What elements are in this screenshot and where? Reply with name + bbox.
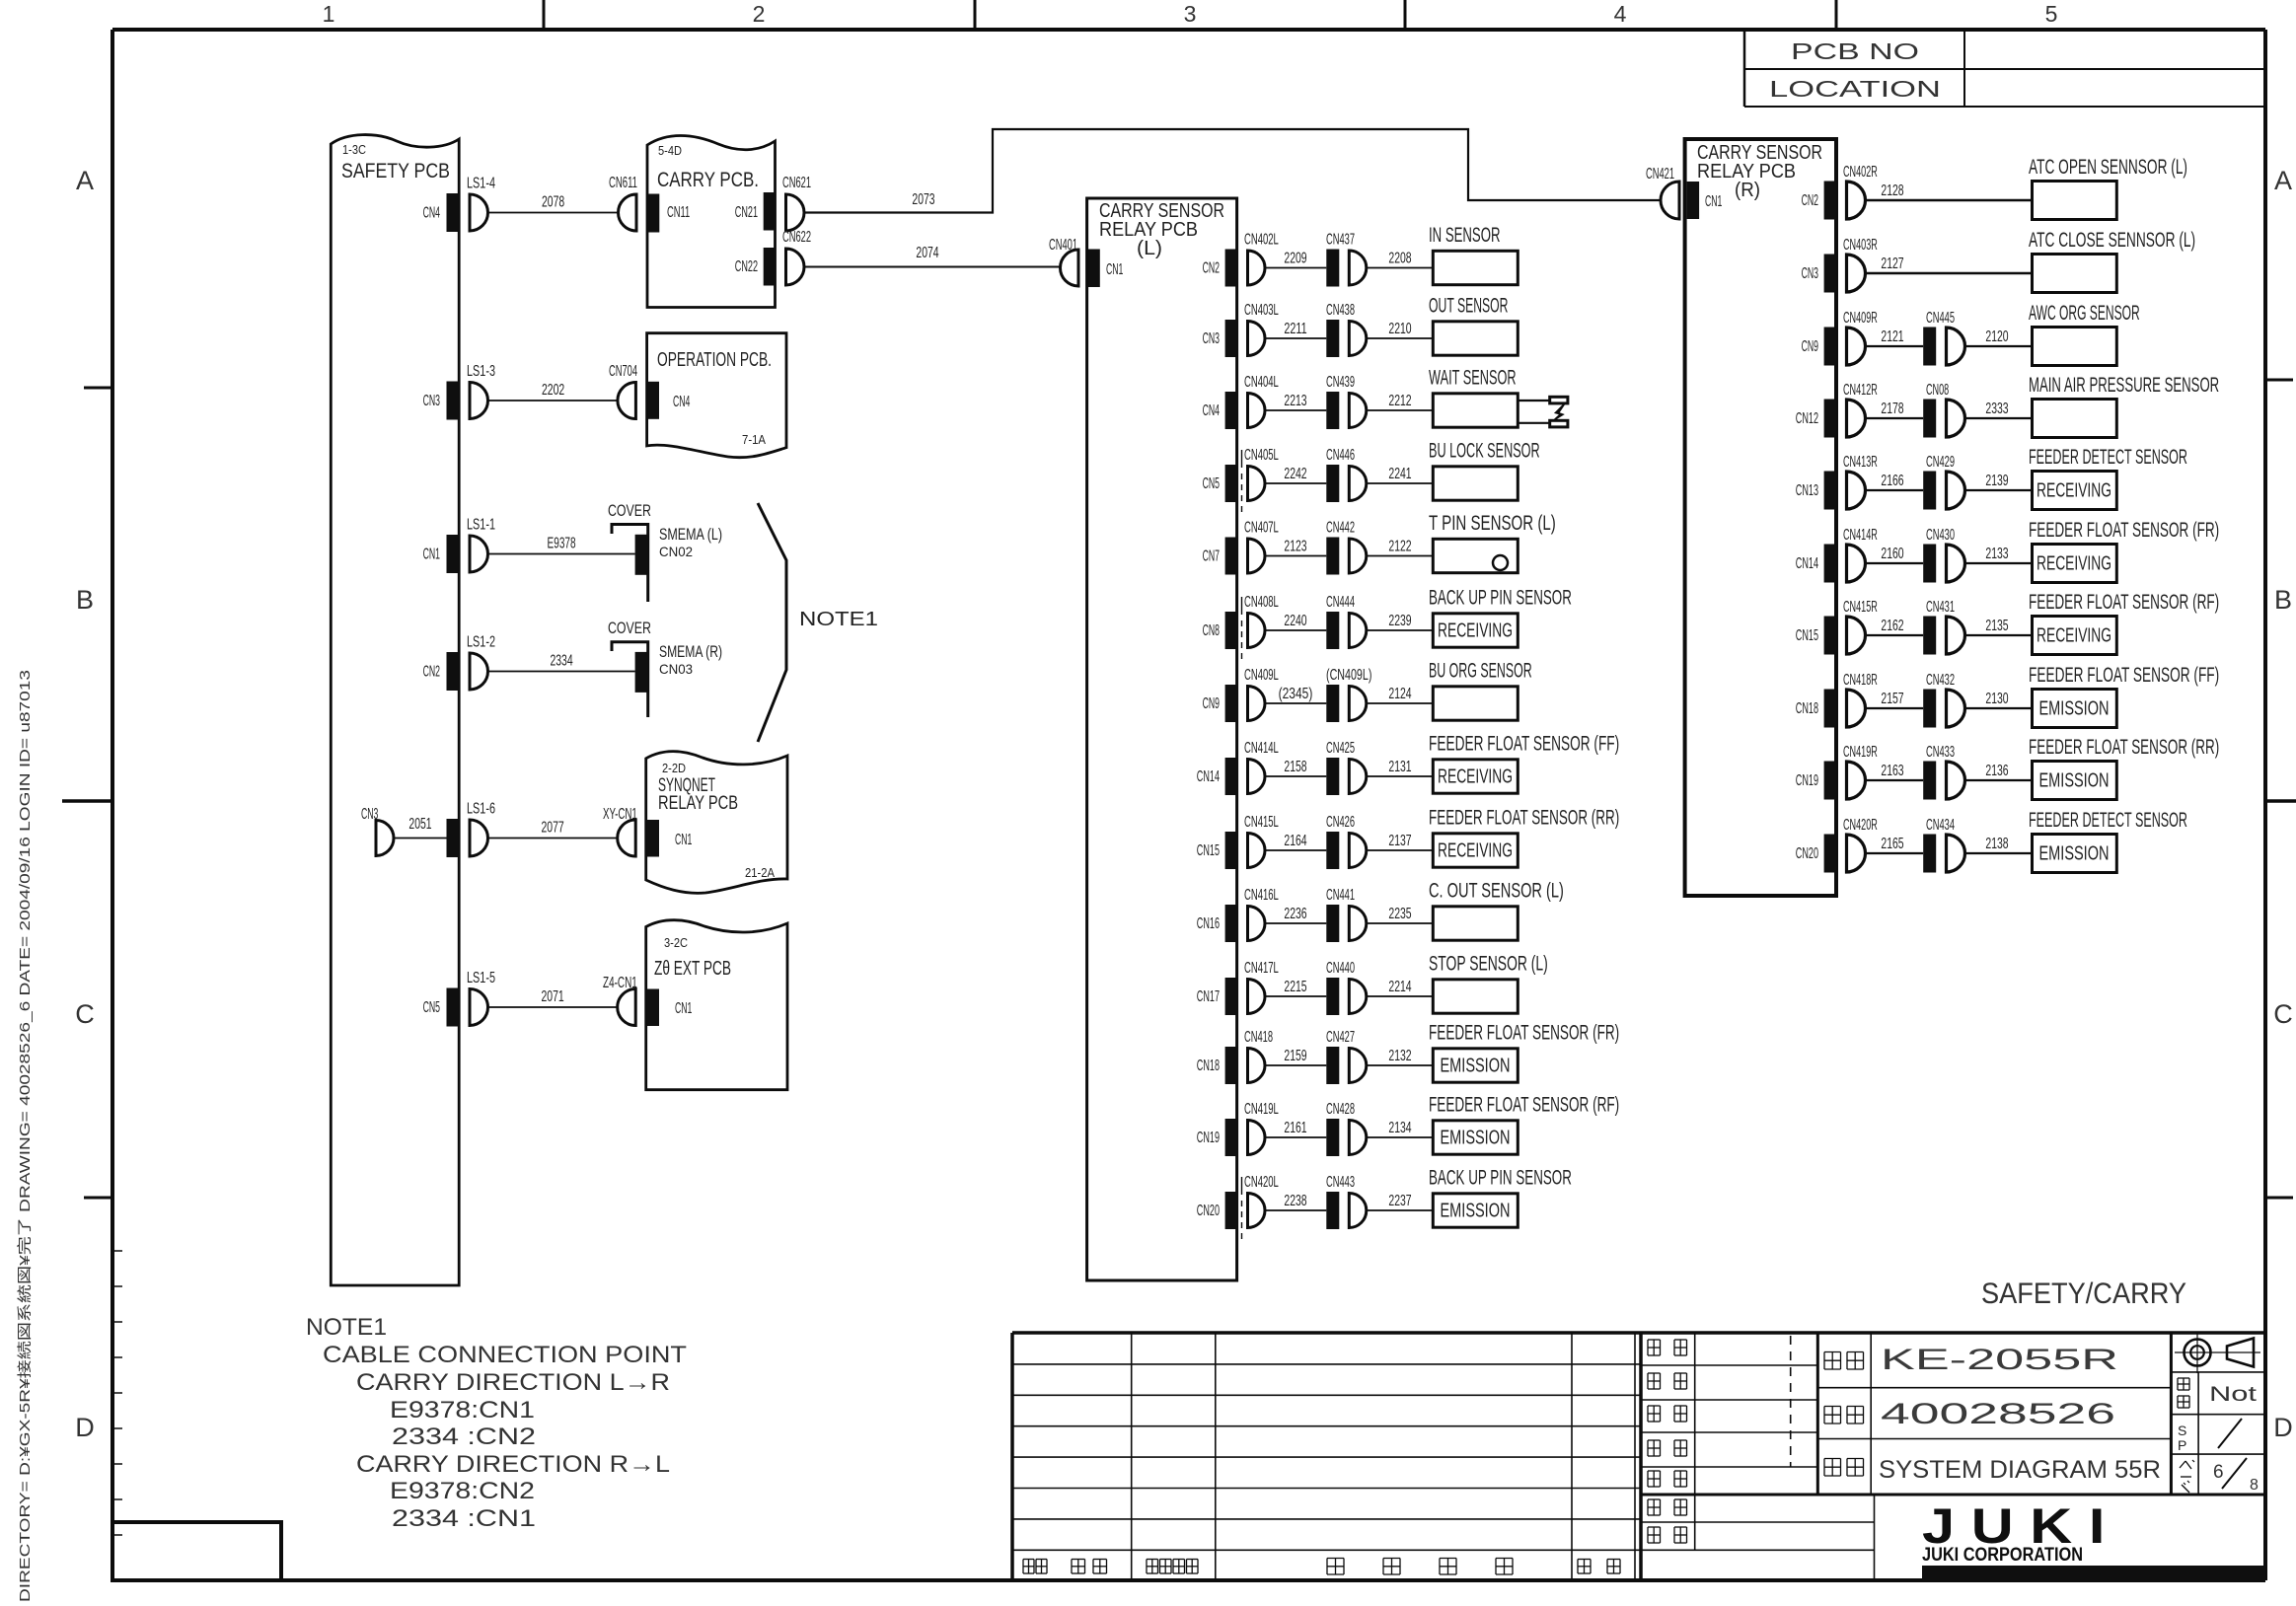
svg-text:CN19: CN19 bbox=[1796, 772, 1818, 789]
connector XY-CN1 plug bbox=[603, 806, 637, 856]
connector CN11 pin header on CARRY PCB bbox=[647, 194, 690, 233]
svg-text:2133: 2133 bbox=[1985, 546, 2008, 562]
svg-text:2165: 2165 bbox=[1881, 836, 1903, 852]
svg-text:CN403R: CN403R bbox=[1843, 237, 1878, 254]
svg-text:FEEDER FLOAT SENSOR (RF): FEEDER FLOAT SENSOR (RF) bbox=[1429, 1094, 1619, 1117]
svg-text:AWC ORG SENSOR: AWC ORG SENSOR bbox=[2029, 302, 2140, 325]
connector CN443 inline pin header bbox=[1326, 1174, 1355, 1229]
svg-text:CN20: CN20 bbox=[1796, 845, 1818, 862]
svg-text:2157: 2157 bbox=[1881, 691, 1903, 707]
svg-text:3: 3 bbox=[1184, 1, 1197, 27]
svg-text:CN16: CN16 bbox=[1197, 915, 1220, 932]
svg-text:EMISSION: EMISSION bbox=[2039, 698, 2110, 720]
connector CN421 plug bbox=[1646, 166, 1679, 219]
wire 2214 bbox=[1367, 979, 1434, 996]
svg-text:EMISSION: EMISSION bbox=[1441, 1128, 1511, 1149]
connector CN14 pin header on relay PCB (R) bbox=[1796, 545, 1836, 583]
connector CN432 inline pin header bbox=[1923, 672, 1955, 728]
OPERATION PCB board outline bbox=[647, 333, 786, 458]
sensor box BACK UP PIN SENSOR bbox=[1429, 587, 1572, 648]
sensor box C. OUT SENSOR (L) bbox=[1429, 880, 1564, 941]
svg-text:CN443: CN443 bbox=[1326, 1174, 1355, 1191]
connector CN437 mating plug bbox=[1349, 251, 1367, 285]
svg-text:CN03: CN03 bbox=[659, 661, 693, 677]
svg-text:CN3: CN3 bbox=[1802, 265, 1818, 282]
svg-text:CN432: CN432 bbox=[1926, 672, 1955, 689]
svg-text:CN9: CN9 bbox=[1802, 338, 1818, 355]
sensor box BU ORG SENSOR bbox=[1429, 660, 1532, 721]
wire 2178 bbox=[1866, 401, 1924, 418]
connector CN19 pin header on relay PCB (R) bbox=[1796, 762, 1836, 800]
svg-text:2136: 2136 bbox=[1985, 763, 2008, 779]
sensor box AWC ORG SENSOR bbox=[2029, 302, 2140, 366]
sensor box BU LOCK SENSOR bbox=[1429, 440, 1540, 501]
svg-text:(CN409L): (CN409L) bbox=[1326, 667, 1371, 684]
svg-text:ATC CLOSE SENNSOR (L): ATC CLOSE SENNSOR (L) bbox=[2029, 229, 2195, 252]
svg-text:CN21: CN21 bbox=[735, 204, 758, 221]
svg-text:2238: 2238 bbox=[1284, 1193, 1306, 1209]
svg-text:2158: 2158 bbox=[1284, 759, 1306, 775]
sensor box MAIN AIR PRESSURE SENSOR bbox=[2029, 374, 2219, 438]
connector CN440 mating plug bbox=[1349, 980, 1367, 1014]
svg-text:CN419L: CN419L bbox=[1244, 1101, 1279, 1118]
svg-text:2211: 2211 bbox=[1284, 321, 1306, 337]
svg-text:CABLE CONNECTION POINT: CABLE CONNECTION POINT bbox=[323, 1342, 687, 1368]
Z0 EXT PCB board outline bbox=[646, 920, 787, 1090]
svg-text:2120: 2120 bbox=[1985, 328, 2008, 345]
svg-text:CARRY DIRECTION R→L: CARRY DIRECTION R→L bbox=[356, 1451, 670, 1478]
svg-text:40028526: 40028526 bbox=[1881, 1398, 2115, 1430]
connector CN4 pin header on SAFETY PCB bbox=[423, 193, 460, 232]
connector CN704 plug bbox=[609, 363, 637, 419]
svg-text:C: C bbox=[2273, 999, 2293, 1029]
svg-text:RECEIVING: RECEIVING bbox=[1438, 620, 1513, 642]
connector LS1-6 plug bbox=[467, 801, 495, 857]
cover SMEMA (R) bbox=[608, 619, 722, 717]
connector CN415R plug bbox=[1843, 599, 1878, 654]
svg-text:CN402R: CN402R bbox=[1843, 164, 1878, 181]
svg-text:CN446: CN446 bbox=[1326, 447, 1355, 464]
wire 2162 bbox=[1866, 618, 1924, 635]
svg-text:2334: 2334 bbox=[550, 653, 572, 670]
svg-text:CN444: CN444 bbox=[1326, 594, 1355, 611]
svg-text:(L): (L) bbox=[1137, 238, 1162, 259]
svg-text:CN419R: CN419R bbox=[1843, 744, 1878, 761]
svg-text:CN5: CN5 bbox=[1203, 475, 1220, 492]
svg-text:OPERATION PCB.: OPERATION PCB. bbox=[657, 349, 772, 371]
svg-text:FEEDER FLOAT SENSOR (FR): FEEDER FLOAT SENSOR (FR) bbox=[2029, 519, 2219, 542]
svg-text:CN430: CN430 bbox=[1926, 527, 1955, 544]
svg-text:P: P bbox=[2178, 1437, 2186, 1453]
svg-text:CN408L: CN408L bbox=[1244, 594, 1279, 611]
wire 2165 bbox=[1866, 836, 1924, 853]
svg-text:2235: 2235 bbox=[1388, 906, 1411, 922]
connector Z4-CN1 plug bbox=[603, 975, 637, 1026]
connector CN402R plug bbox=[1843, 164, 1878, 219]
connector CN431 mating plug bbox=[1947, 617, 1965, 654]
connector CN442 inline pin header bbox=[1326, 520, 1355, 575]
wire 2139 bbox=[1965, 473, 2033, 490]
connector CN446 mating plug bbox=[1349, 467, 1367, 501]
connector CN7 pin header on relay PCB (L) bbox=[1203, 538, 1237, 575]
svg-text:2135: 2135 bbox=[1985, 618, 2008, 634]
connector CN402L plug bbox=[1244, 232, 1279, 286]
svg-text:BACK UP PIN SENSOR: BACK UP PIN SENSOR bbox=[1429, 587, 1572, 610]
svg-text:CARRY DIRECTION L→R: CARRY DIRECTION L→R bbox=[356, 1369, 670, 1396]
NOTE1 cable connection notes bbox=[306, 1314, 687, 1532]
connector CN426 mating plug bbox=[1349, 834, 1367, 868]
sensor box FEEDER FLOAT SENSOR (RR) bbox=[2029, 736, 2219, 800]
svg-text:BU ORG SENSOR: BU ORG SENSOR bbox=[1429, 660, 1532, 683]
connector CN9 pin header on relay PCB (L) bbox=[1203, 685, 1237, 722]
sensor box FEEDER FLOAT SENSOR (FF) bbox=[1429, 733, 1619, 794]
wire 2237 bbox=[1367, 1193, 1434, 1210]
svg-text:CN704: CN704 bbox=[609, 363, 637, 380]
sensor box FEEDER FLOAT SENSOR (FR) bbox=[1429, 1022, 1619, 1083]
wire 2212 bbox=[1367, 393, 1434, 410]
connector CN418 plug bbox=[1244, 1029, 1273, 1083]
connector CN409L plug bbox=[1244, 667, 1279, 721]
svg-text:2127: 2127 bbox=[1881, 255, 1903, 272]
svg-text:2212: 2212 bbox=[1388, 393, 1411, 409]
spare box bottom left bbox=[112, 1522, 281, 1580]
connector CN14 pin header on relay PCB (L) bbox=[1197, 758, 1237, 795]
connector CN3 pin header on relay PCB (L) bbox=[1203, 320, 1237, 357]
svg-text:2202: 2202 bbox=[542, 382, 564, 399]
wire 2236 bbox=[1265, 906, 1326, 923]
svg-text:2051: 2051 bbox=[408, 816, 431, 833]
svg-text:SYSTEM DIAGRAM 55R: SYSTEM DIAGRAM 55R bbox=[1879, 1456, 2161, 1484]
svg-text:CN3: CN3 bbox=[423, 393, 440, 409]
svg-text:2131: 2131 bbox=[1388, 759, 1411, 775]
wire 2122 bbox=[1367, 539, 1434, 556]
connector CN08 mating plug bbox=[1947, 400, 1965, 437]
svg-text:CN403L: CN403L bbox=[1244, 302, 1279, 319]
right border row letters A-D bbox=[2273, 166, 2293, 1442]
svg-text:CN405L: CN405L bbox=[1244, 447, 1279, 464]
connector CN1 pin header on relay PCB (R) bbox=[1687, 182, 1723, 219]
wire 2121 bbox=[1866, 328, 1924, 346]
svg-text:CN434: CN434 bbox=[1926, 817, 1955, 834]
wire 2334 bbox=[488, 653, 635, 672]
svg-text:1: 1 bbox=[323, 1, 335, 27]
svg-text:CN18: CN18 bbox=[1796, 700, 1818, 717]
svg-text:LS1-3: LS1-3 bbox=[467, 363, 495, 380]
left border ticks bbox=[62, 388, 122, 1535]
connector CN428 inline pin header bbox=[1326, 1101, 1355, 1156]
svg-text:2074: 2074 bbox=[916, 245, 938, 261]
svg-text:LS1-4: LS1-4 bbox=[467, 176, 495, 192]
connector CN413R plug bbox=[1843, 454, 1878, 509]
connector CN8 pin header on relay PCB (L) bbox=[1203, 612, 1237, 649]
svg-text:JUKI CORPORATION: JUKI CORPORATION bbox=[1922, 1544, 2083, 1566]
revision table header texts (kanji) bbox=[1023, 1559, 1620, 1575]
connector CN434 mating plug bbox=[1947, 835, 1965, 872]
sensor box FEEDER FLOAT SENSOR (RR) bbox=[1429, 807, 1619, 868]
svg-text:CN415R: CN415R bbox=[1843, 599, 1878, 616]
connector CN5 pin header on SAFETY PCB bbox=[423, 988, 460, 1027]
svg-text:2077: 2077 bbox=[542, 820, 564, 837]
wire 2166 bbox=[1866, 473, 1924, 490]
svg-text:B: B bbox=[2274, 585, 2292, 615]
svg-text:CN425: CN425 bbox=[1326, 740, 1355, 757]
connector CN416L plug bbox=[1244, 887, 1279, 941]
connector CN405L plug bbox=[1244, 447, 1279, 501]
connector CN418R plug bbox=[1843, 672, 1878, 727]
svg-text:CN13: CN13 bbox=[1796, 482, 1818, 499]
connector (CN409L) inline pin header bbox=[1326, 667, 1371, 722]
svg-text:CN5: CN5 bbox=[423, 999, 440, 1016]
sensor box T PIN SENSOR (L) bbox=[1429, 512, 1556, 573]
svg-text:CN15: CN15 bbox=[1796, 627, 1818, 644]
svg-text:FEEDER FLOAT SENSOR (RF): FEEDER FLOAT SENSOR (RF) bbox=[2029, 591, 2219, 614]
svg-text:CN9: CN9 bbox=[1203, 695, 1220, 712]
svg-text:1-3C: 1-3C bbox=[342, 142, 366, 157]
svg-text:2236: 2236 bbox=[1284, 906, 1306, 922]
connector CN442 mating plug bbox=[1349, 539, 1367, 573]
svg-text:2166: 2166 bbox=[1881, 473, 1903, 489]
sensor box FEEDER FLOAT SENSOR (FF) bbox=[2029, 664, 2219, 728]
connector CN429 mating plug bbox=[1947, 472, 1965, 509]
svg-text:CN420L: CN420L bbox=[1244, 1174, 1279, 1191]
svg-text:2214: 2214 bbox=[1388, 979, 1411, 995]
connector CN18 pin header on relay PCB (R) bbox=[1796, 690, 1836, 728]
connector CN611 plug bbox=[609, 175, 637, 231]
svg-text:T PIN SENSOR (L): T PIN SENSOR (L) bbox=[1429, 512, 1556, 535]
svg-text:2213: 2213 bbox=[1284, 393, 1306, 409]
svg-text:CN14: CN14 bbox=[1796, 555, 1818, 572]
svg-text:(R): (R) bbox=[1735, 180, 1760, 201]
svg-text:MAIN AIR PRESSURE SENSOR: MAIN AIR PRESSURE SENSOR bbox=[2029, 374, 2219, 397]
svg-text:2073: 2073 bbox=[912, 191, 934, 208]
connector CN4 pin header on OPERATION PCB bbox=[647, 382, 690, 419]
type table labels and values bbox=[1824, 1344, 2161, 1484]
svg-text:CN4: CN4 bbox=[423, 205, 441, 222]
svg-text:CN8: CN8 bbox=[1203, 622, 1220, 639]
connector CN621 plug bbox=[782, 175, 811, 231]
approval table row labels (kanji) bbox=[1648, 1340, 1687, 1543]
svg-text:LS1-1: LS1-1 bbox=[467, 517, 495, 534]
svg-text:CN414L: CN414L bbox=[1244, 740, 1279, 757]
wire 2131 bbox=[1367, 759, 1434, 776]
svg-text:CN611: CN611 bbox=[609, 175, 637, 191]
connector CN13 pin header on relay PCB (R) bbox=[1796, 472, 1836, 510]
wire (2345) bbox=[1265, 686, 1326, 703]
wire 2235 bbox=[1367, 906, 1434, 923]
connector CN12 pin header on relay PCB (R) bbox=[1796, 400, 1836, 438]
svg-text:CN418R: CN418R bbox=[1843, 672, 1878, 689]
connector CN415L plug bbox=[1244, 814, 1279, 868]
svg-text:CN412R: CN412R bbox=[1843, 382, 1878, 399]
connector CN414R plug bbox=[1843, 527, 1878, 582]
boundary dash mark near CN420L bbox=[1241, 1177, 1243, 1240]
title block tables bbox=[1012, 1333, 2265, 1580]
svg-text:2123: 2123 bbox=[1284, 539, 1306, 555]
connector CN432 mating plug bbox=[1947, 690, 1965, 727]
svg-text:CN421: CN421 bbox=[1646, 166, 1674, 182]
connector CN412R plug bbox=[1843, 382, 1878, 437]
svg-text:S: S bbox=[2178, 1423, 2186, 1438]
connector CN22 pin header on CARRY PCB bbox=[735, 248, 776, 286]
svg-text:2134: 2134 bbox=[1388, 1120, 1411, 1136]
connector CN15 pin header on relay PCB (R) bbox=[1796, 617, 1836, 655]
svg-text:PCB NO: PCB NO bbox=[1791, 38, 1919, 64]
svg-text:STOP SENSOR (L): STOP SENSOR (L) bbox=[1429, 953, 1548, 976]
connector LS1-3 plug bbox=[467, 363, 495, 419]
svg-text:CN414R: CN414R bbox=[1843, 527, 1878, 544]
svg-text:CN438: CN438 bbox=[1326, 302, 1355, 319]
wire 2077 bbox=[488, 820, 618, 839]
svg-text:2237: 2237 bbox=[1388, 1193, 1411, 1209]
svg-text:2333: 2333 bbox=[1985, 401, 2008, 417]
wire 2161 bbox=[1265, 1120, 1326, 1137]
sensor box FEEDER FLOAT SENSOR (RF) bbox=[1429, 1094, 1619, 1155]
svg-text:C. OUT SENSOR (L): C. OUT SENSOR (L) bbox=[1429, 880, 1564, 903]
connector CN445 mating plug bbox=[1947, 328, 1965, 365]
wire 2071 bbox=[488, 988, 618, 1007]
svg-text:IN SENSOR: IN SENSOR bbox=[1429, 224, 1501, 247]
svg-text:E9378:CN1: E9378:CN1 bbox=[390, 1397, 535, 1423]
svg-text:B: B bbox=[76, 585, 94, 615]
svg-text:RELAY PCB: RELAY PCB bbox=[658, 793, 738, 814]
sensor box IN SENSOR bbox=[1429, 224, 1518, 285]
wire 2240 bbox=[1265, 613, 1326, 630]
wire 2127 bbox=[1866, 255, 2033, 273]
wire 2128 bbox=[1866, 182, 2033, 200]
svg-text:BU LOCK SENSOR: BU LOCK SENSOR bbox=[1429, 440, 1540, 463]
sensor box WAIT SENSOR bbox=[1429, 367, 1518, 428]
connector CN2 pin header on SAFETY PCB bbox=[423, 652, 460, 691]
connector CN434 inline pin header bbox=[1923, 817, 1955, 873]
svg-text:SAFETY/CARRY: SAFETY/CARRY bbox=[1981, 1277, 2186, 1310]
svg-text:CN20: CN20 bbox=[1197, 1203, 1220, 1219]
top border column ticks bbox=[544, 0, 1836, 30]
sensor box FEEDER DETECT SENSOR bbox=[2029, 809, 2187, 873]
svg-text:EMISSION: EMISSION bbox=[2039, 770, 2110, 792]
svg-text:CN415L: CN415L bbox=[1244, 814, 1279, 831]
svg-text:2139: 2139 bbox=[1985, 473, 2008, 489]
wire 2136 bbox=[1965, 763, 2033, 780]
svg-text:SMEMA (L): SMEMA (L) bbox=[659, 525, 722, 544]
svg-text:CN409L: CN409L bbox=[1244, 667, 1279, 684]
svg-text:CN1: CN1 bbox=[1705, 193, 1722, 210]
connector CN430 mating plug bbox=[1947, 545, 1965, 582]
connector CN441 inline pin header bbox=[1326, 887, 1355, 942]
svg-text:EMISSION: EMISSION bbox=[1441, 1201, 1511, 1222]
svg-text:LS1-6: LS1-6 bbox=[467, 801, 495, 818]
svg-text:2137: 2137 bbox=[1388, 833, 1411, 849]
svg-text:WAIT SENSOR: WAIT SENSOR bbox=[1429, 367, 1517, 390]
svg-text:CN11: CN11 bbox=[667, 204, 690, 221]
connector CN401 plug bbox=[1049, 237, 1078, 286]
svg-text:RECEIVING: RECEIVING bbox=[2037, 553, 2111, 575]
connector CN20 pin header on relay PCB (R) bbox=[1796, 835, 1836, 873]
svg-text:2241: 2241 bbox=[1388, 466, 1411, 482]
wire 2133 bbox=[1965, 546, 2033, 563]
svg-text:CN2: CN2 bbox=[1802, 192, 1818, 209]
wire 2132 bbox=[1367, 1048, 1434, 1065]
connector CN428 mating plug bbox=[1349, 1121, 1367, 1155]
connector CN5 pin header on relay PCB (L) bbox=[1203, 465, 1237, 502]
svg-text:2160: 2160 bbox=[1881, 546, 1903, 562]
connector CN414L plug bbox=[1244, 740, 1279, 794]
scale cell 尺度 Not bbox=[2178, 1378, 2257, 1408]
svg-text:7-1A: 7-1A bbox=[742, 432, 766, 447]
svg-text:CN409R: CN409R bbox=[1843, 310, 1878, 327]
svg-text:CN441: CN441 bbox=[1326, 887, 1355, 904]
top border column numbers 1-5 bbox=[323, 1, 2058, 27]
sensor box ATC CLOSE SENNSOR (L) bbox=[2029, 229, 2195, 293]
wire 2242 bbox=[1265, 466, 1326, 483]
connector CN408L plug bbox=[1244, 594, 1279, 648]
connector CN404L plug bbox=[1244, 374, 1279, 428]
connector CN403L plug bbox=[1244, 302, 1279, 356]
svg-text:CN19: CN19 bbox=[1197, 1130, 1220, 1146]
svg-text:2215: 2215 bbox=[1284, 979, 1306, 995]
svg-text:2334 :CN2: 2334 :CN2 bbox=[392, 1423, 536, 1450]
svg-text:CN2: CN2 bbox=[1203, 260, 1220, 277]
wire 2138 bbox=[1965, 836, 2033, 853]
svg-text:2128: 2128 bbox=[1881, 182, 1903, 199]
wire 2120 bbox=[1965, 328, 2033, 346]
connector CN1 pin header on SAFETY PCB bbox=[423, 535, 460, 573]
connector CN1 pin header on Z0 EXT PCB bbox=[646, 989, 692, 1027]
connector None pin header on SAFETY PCB bbox=[447, 819, 460, 857]
connector LS1-5 plug bbox=[467, 970, 495, 1026]
connector CN18 pin header on relay PCB (L) bbox=[1197, 1047, 1237, 1084]
svg-text:CN402L: CN402L bbox=[1244, 232, 1279, 249]
svg-text:5: 5 bbox=[2045, 1, 2058, 27]
CARRY SENSOR RELAY PCB (R) board outline bbox=[1685, 139, 1836, 896]
svg-text:2124: 2124 bbox=[1388, 686, 1411, 702]
connector CN622 plug bbox=[782, 229, 811, 285]
connector CN430 inline pin header bbox=[1923, 527, 1955, 583]
svg-text:D: D bbox=[75, 1413, 95, 1442]
svg-text:RECEIVING: RECEIVING bbox=[1438, 840, 1513, 862]
wire 2215 bbox=[1265, 979, 1326, 996]
svg-text:CN417L: CN417L bbox=[1244, 960, 1279, 977]
svg-text:ATC OPEN SENNSOR (L): ATC OPEN SENNSOR (L) bbox=[2029, 156, 2187, 179]
svg-text:CN407L: CN407L bbox=[1244, 520, 1279, 537]
connector CN21 pin header on CARRY PCB bbox=[735, 192, 776, 231]
SAFETY PCB board outline bbox=[331, 135, 459, 1285]
svg-text:CN427: CN427 bbox=[1326, 1029, 1355, 1046]
svg-text:CN426: CN426 bbox=[1326, 814, 1355, 831]
svg-text:EMISSION: EMISSION bbox=[1441, 1056, 1511, 1077]
wire 2241 bbox=[1367, 466, 1434, 483]
connector CN419R plug bbox=[1843, 744, 1878, 799]
connector CN441 mating plug bbox=[1349, 907, 1367, 941]
connector CN19 pin header on relay PCB (L) bbox=[1197, 1119, 1237, 1156]
svg-text:3-2C: 3-2C bbox=[664, 935, 688, 950]
svg-text:2: 2 bbox=[753, 1, 766, 27]
connector CN426 inline pin header bbox=[1326, 814, 1355, 869]
svg-text:CN18: CN18 bbox=[1197, 1058, 1220, 1074]
svg-text:SMEMA (R): SMEMA (R) bbox=[659, 642, 722, 661]
connector LS1-1 plug bbox=[467, 517, 495, 573]
wire 2210 bbox=[1367, 321, 1434, 338]
svg-text:FEEDER DETECT SENSOR: FEEDER DETECT SENSOR bbox=[2029, 809, 2187, 832]
svg-text:CN17: CN17 bbox=[1197, 988, 1220, 1005]
svg-text:CN420R: CN420R bbox=[1843, 817, 1878, 834]
svg-text:2242: 2242 bbox=[1284, 466, 1306, 482]
sensor box FEEDER FLOAT SENSOR (FR) bbox=[2029, 519, 2219, 583]
svg-text:2078: 2078 bbox=[542, 194, 564, 211]
connector CN431 inline pin header bbox=[1923, 599, 1955, 655]
connector CN2 pin header on relay PCB (L) bbox=[1203, 250, 1237, 287]
svg-text:CN1: CN1 bbox=[1106, 261, 1123, 278]
boundary dash mark near CN405L bbox=[1241, 450, 1243, 513]
